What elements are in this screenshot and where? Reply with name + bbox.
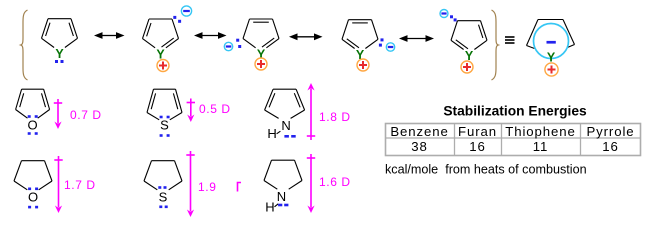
svg-text:O: O: [28, 190, 38, 205]
furan dipole arrow: [54, 99, 62, 129]
pyrrole structure: [265, 89, 305, 141]
svg-text:N: N: [277, 189, 286, 204]
svg-text:Pyrrole: Pyrrole: [586, 124, 634, 139]
left brace of resonance hybrid set: [21, 10, 28, 80]
table header row (Benzene Furan Thiophene Pyrrole): [390, 124, 634, 139]
table values row (38 16 11 16): [411, 139, 618, 154]
resonance structure 4 (negative charge mid-right, Y+): [342, 20, 395, 71]
aromatic hybrid ring with delocalized negative charge (circle minus), Y+: [527, 20, 575, 77]
stabilization energies table grid: [386, 124, 641, 156]
resonance structure 2 (negative charge top-right, Y+): [143, 6, 192, 72]
svg-text:16: 16: [602, 139, 618, 154]
svg-text:N: N: [281, 118, 290, 133]
pyrrole dipole arrow (pointing up): [307, 83, 315, 140]
svg-text:Furan: Furan: [458, 124, 497, 139]
thiolane (tetrahydrothiophene) structure: [144, 161, 182, 208]
svg-text:1.8 D: 1.8 D: [319, 110, 351, 124]
svg-text:Stabilization Energies: Stabilization Energies: [443, 104, 587, 119]
svg-text:S: S: [160, 118, 169, 133]
resonance arrow 1: [94, 32, 125, 39]
svg-text:0.7 D: 0.7 D: [70, 108, 102, 122]
pyrrolidine dipole arrow: [307, 154, 315, 213]
svg-text:1.9: 1.9: [198, 180, 216, 194]
furan structure: [16, 89, 50, 135]
pyrrole-type ring structure 1 (neutral, heteroatom Y with lone pair): [42, 19, 78, 63]
svg-text:S: S: [159, 190, 168, 205]
resonance arrow 2: [194, 32, 227, 39]
svg-text:1.6 D: 1.6 D: [319, 175, 351, 189]
tetrahydrofuran dipole arrow: [54, 156, 62, 213]
svg-text:38: 38: [411, 139, 427, 154]
resonance structure 3 (negative charge mid-left, Y+): [224, 19, 279, 70]
equivalence symbol (triple bar): [505, 36, 515, 44]
svg-text:H: H: [267, 126, 276, 141]
svg-text:16: 16: [469, 139, 485, 154]
thiolane dipole arrow: [186, 151, 194, 217]
svg-text:Y: Y: [55, 47, 64, 61]
resonance structure 5 (negative charge top-left, Y+): [440, 10, 487, 74]
svg-text:Benzene: Benzene: [390, 124, 448, 139]
stray bracket glyph after 1.9: [238, 183, 242, 192]
resonance arrow 4: [399, 35, 434, 42]
thiophene structure: [147, 89, 182, 137]
svg-text:11: 11: [533, 139, 549, 154]
resonance arrow 3: [289, 33, 323, 40]
tetrahydrofuran structure: [14, 161, 52, 209]
svg-text:H: H: [265, 200, 274, 215]
svg-text:0.5 D: 0.5 D: [199, 102, 231, 116]
svg-text:Thiophene: Thiophene: [505, 124, 575, 139]
thiophene dipole arrow: [187, 99, 195, 123]
right brace of resonance hybrid set: [492, 10, 499, 80]
svg-text:kcal/mole from heats of combu: kcal/mole from heats of combustion: [385, 163, 587, 177]
svg-text:O: O: [28, 118, 38, 133]
svg-text:1.7 D: 1.7 D: [64, 178, 96, 192]
pyrrolidine structure: [264, 160, 302, 214]
